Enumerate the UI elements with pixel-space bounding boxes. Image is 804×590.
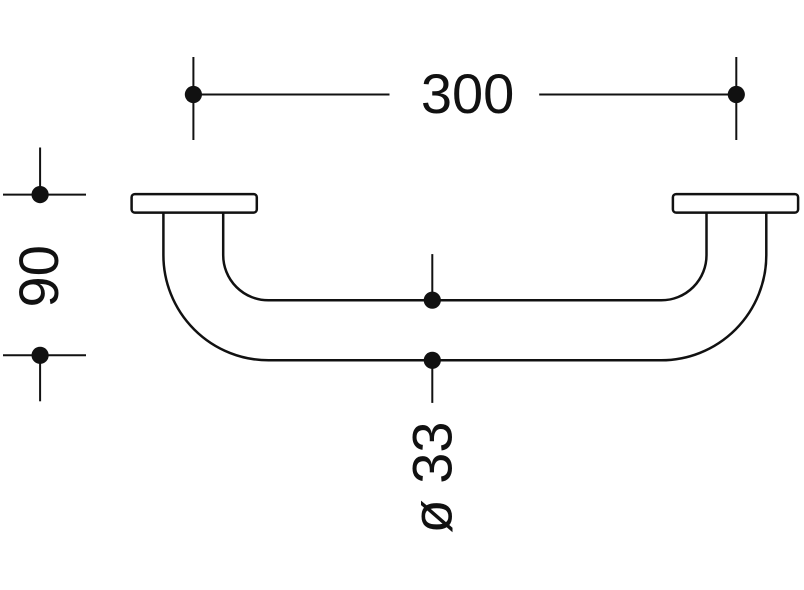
- svg-text:ø 33: ø 33: [401, 421, 464, 533]
- svg-text:90: 90: [7, 245, 70, 307]
- svg-text:300: 300: [421, 62, 514, 125]
